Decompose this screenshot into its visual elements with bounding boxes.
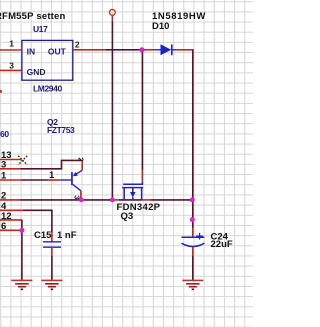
- wire net 3 red stub: [0, 168, 20, 170]
- wire net 12 down: [21, 220, 23, 230]
- wire vertical x=112: [111, 22, 113, 200]
- capacitor C24 plus sign: [196, 233, 203, 240]
- wire C15 to ground: [51, 256, 53, 280]
- wire bottom rail mid: [119, 199, 142, 201]
- wire U17 pin1: [0, 49, 22, 51]
- op-amp/regulator U17 box: [22, 40, 73, 80]
- svg-text:1: 1: [9, 38, 14, 48]
- capacitor C15 bottom plate: [43, 246, 61, 248]
- capacitor C24 top plate: [182, 236, 205, 238]
- junction dot at C24 branch: [190, 217, 195, 222]
- mosfet Q3 second plate: [122, 187, 143, 189]
- wire C24 to ground: [192, 256, 194, 280]
- svg-text:C15: C15: [34, 230, 52, 241]
- wire C24 bottom pin red: [192, 247, 194, 256]
- wire net 12 red stub: [0, 219, 22, 221]
- svg-text:LM2940: LM2940: [33, 84, 62, 94]
- svg-text:1: 1: [49, 170, 55, 181]
- wire vertical x=192.8 diode to junction: [192, 50, 194, 200]
- wire net 13 stub: [0, 159, 22, 161]
- capacitor C15 top plate: [43, 241, 61, 243]
- wire net 6 red stub: [0, 229, 22, 231]
- mosfet Q3 arrow: [132, 188, 134, 193]
- wire junction to diode anode pin: [142, 49, 154, 51]
- wire below circle red: [111, 15, 113, 21]
- transistor Q2 collector: [73, 184, 81, 191]
- diode D10 cathode lead: [173, 49, 177, 51]
- diode D10 anode lead: [154, 49, 160, 51]
- wire net 4 red stub: [0, 209, 23, 211]
- svg-text:IN: IN: [27, 46, 35, 56]
- wire Q2 base pin red: [49, 179, 60, 181]
- svg-text:1 nF: 1 nF: [57, 230, 77, 241]
- mosfet Q3 left leg: [123, 188, 125, 200]
- wire ground drop left: [21, 230, 23, 280]
- svg-text:2: 2: [77, 157, 86, 161]
- wire net 1 red stub: [0, 179, 21, 181]
- svg-text:60: 60: [0, 129, 9, 139]
- junction dot at x112 rail: [110, 197, 115, 202]
- svg-text:3: 3: [9, 60, 14, 70]
- wire net 2 red stub: [0, 199, 21, 201]
- capacitor C24 curved plate: [182, 243, 205, 246]
- svg-text:OUT: OUT: [48, 46, 67, 56]
- red edge tick: [0, 90, 2, 93]
- wire U17 pin3: [0, 69, 22, 71]
- wire C24 top pin red: [192, 228, 194, 238]
- wire U17 pin2 red stub: [73, 49, 106, 51]
- svg-text:FZT753: FZT753: [47, 125, 75, 135]
- wire pin2 to junction: [106, 49, 142, 51]
- wire net 3 to Q2 emitter: [20, 160, 82, 168]
- wire vertical x=192.8 to lower junction: [192, 200, 194, 228]
- wire bottom rail: [21, 199, 113, 201]
- junction dot at Q2 collector: [79, 197, 84, 202]
- svg-text:RFM55P setten: RFM55P setten: [0, 11, 66, 22]
- wire vertical x=142 from junction to Q3 drain: [141, 50, 143, 170]
- wire C15 bottom pin red: [51, 247, 53, 256]
- transistor Q2 emitter with arrow: [76, 170, 82, 174]
- svg-text:22uF: 22uF: [211, 239, 233, 250]
- wire bottom rail red bit: [112, 199, 119, 201]
- wire Q3 source pin red: [142, 199, 151, 201]
- wire Q2 emitter pin red: [81, 160, 83, 170]
- wire bottom rail right: [151, 199, 193, 201]
- junction dot at ground branch: [19, 228, 24, 233]
- junction dot at pin2/diode: [140, 47, 145, 52]
- mosfet Q3 top plate: [123, 183, 143, 185]
- svg-text:U17: U17: [33, 24, 48, 34]
- svg-text:GND: GND: [27, 67, 46, 77]
- wire net 1 to base: [21, 179, 49, 181]
- svg-text:D10: D10: [152, 21, 169, 32]
- wire C15 top pin red: [51, 232, 53, 242]
- ground symbol middle: [41, 280, 62, 289]
- svg-text:Q3: Q3: [121, 211, 134, 222]
- open pin circle top: [110, 10, 116, 16]
- wire Q2 collector pin red: [80, 191, 82, 200]
- diode D10 cathode bar: [171, 44, 173, 55]
- wire net 4 to C15: [23, 210, 52, 232]
- junction dot at rail end: [190, 197, 195, 202]
- mosfet Q3 right leg: [141, 188, 143, 200]
- wire Q3 drain pin red: [141, 170, 143, 182]
- diode D10 triangle: [161, 44, 172, 55]
- mosfet Q3 top plate connector: [141, 181, 143, 184]
- ground symbol left: [11, 280, 32, 289]
- ground symbol right: [182, 280, 203, 289]
- transistor Q2 base lead: [60, 179, 72, 181]
- transistor Q2 base bar: [71, 172, 73, 185]
- wire diode cathode pin red: [176, 49, 193, 51]
- unconnected cross marker: [18, 156, 27, 165]
- svg-text:2: 2: [75, 39, 80, 49]
